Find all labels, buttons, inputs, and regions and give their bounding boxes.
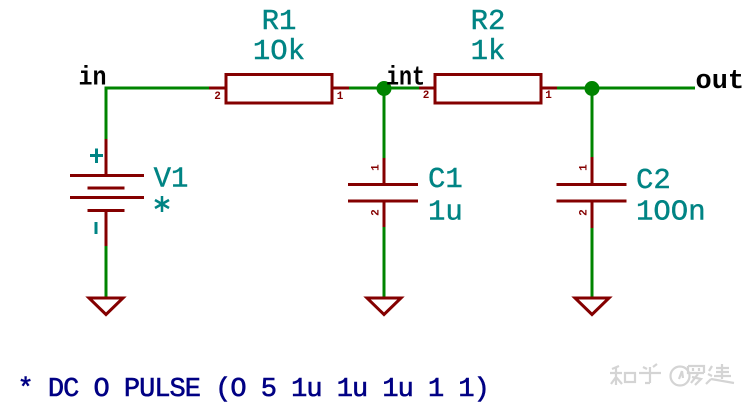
svg-text:2: 2 xyxy=(579,209,591,216)
junction out xyxy=(585,81,600,96)
ground (V1) xyxy=(89,298,123,315)
svg-text:1k: 1k xyxy=(471,35,506,68)
svg-text:2: 2 xyxy=(214,91,221,103)
wire xyxy=(349,87,419,90)
wire xyxy=(383,227,386,297)
svg-text:1: 1 xyxy=(579,164,591,171)
svg-text:1: 1 xyxy=(337,91,344,103)
svg-text:V1: V1 xyxy=(154,163,189,196)
watermark zhihu xyxy=(610,364,734,386)
wire xyxy=(557,87,695,90)
value * xyxy=(155,196,169,212)
ground (C2) xyxy=(575,298,609,315)
svg-text:C2: C2 xyxy=(636,164,671,197)
wire xyxy=(105,87,108,140)
minus sign xyxy=(95,222,98,234)
capacitor C2 xyxy=(557,157,627,228)
svg-text:1u: 1u xyxy=(428,196,463,229)
svg-text:1OOn: 1OOn xyxy=(636,196,706,229)
svg-text:1Ok: 1Ok xyxy=(253,35,305,68)
svg-text:C1: C1 xyxy=(428,163,463,196)
junction int xyxy=(377,81,392,96)
ground (C1) xyxy=(367,298,401,315)
wire xyxy=(591,228,594,297)
svg-text:* DC O PULSE (O 5 1u 1u 1u 1 1: * DC O PULSE (O 5 1u 1u 1u 1 1) xyxy=(18,375,489,405)
wire xyxy=(105,87,210,90)
capacitor C1 xyxy=(348,158,418,227)
wire xyxy=(591,89,594,157)
svg-text:1: 1 xyxy=(371,164,383,171)
svg-text:in: in xyxy=(79,64,107,94)
svg-text:out: out xyxy=(696,67,745,97)
resistor R2 xyxy=(419,75,557,104)
plus sign xyxy=(90,149,103,164)
battery V1 xyxy=(70,139,144,246)
resistor R1 xyxy=(209,75,349,104)
svg-text:2: 2 xyxy=(423,90,430,102)
svg-text:2: 2 xyxy=(371,209,383,216)
svg-text:1: 1 xyxy=(545,90,552,102)
svg-text:R1: R1 xyxy=(262,5,297,38)
wire xyxy=(383,89,386,158)
wire xyxy=(105,246,108,297)
svg-text:R2: R2 xyxy=(471,5,506,38)
